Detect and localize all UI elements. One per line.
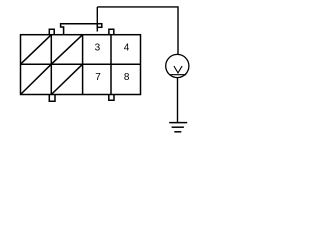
svg-text:3: 3 [95,43,101,54]
svg-text:7: 7 [95,72,101,83]
svg-text:4: 4 [124,43,130,54]
svg-text:8: 8 [124,72,130,83]
